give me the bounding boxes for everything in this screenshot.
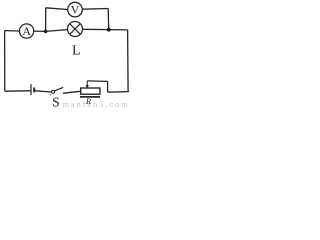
svg-text:manfen5.com: manfen5.com xyxy=(62,99,129,108)
wire rheostat step vertical xyxy=(107,81,109,92)
wire switch right to rheostat xyxy=(63,91,81,93)
wire voltmeter top right xyxy=(83,8,109,11)
lamp L xyxy=(68,22,83,37)
wire right vertical xyxy=(127,30,130,92)
wire node to lamp xyxy=(46,30,68,32)
wire voltmeter branch right vertical xyxy=(107,9,110,30)
wire ammeter left xyxy=(5,30,20,32)
wire battery to switch xyxy=(35,91,52,92)
svg-text:A: A xyxy=(22,24,31,38)
wire rheostat step lower xyxy=(108,91,129,94)
svg-text:R: R xyxy=(85,96,92,106)
scan speck xyxy=(50,94,52,96)
svg-text:S: S xyxy=(52,94,60,108)
svg-text:V: V xyxy=(71,3,80,17)
rheostat slider arrow xyxy=(86,81,89,88)
wire bottom left xyxy=(5,90,31,92)
wire voltmeter branch left vertical xyxy=(45,8,47,32)
switch S xyxy=(52,87,64,93)
node junction dot left xyxy=(44,30,48,34)
ammeter A xyxy=(19,24,33,38)
wire left vertical xyxy=(4,31,6,92)
rheostat track bar xyxy=(80,96,100,98)
voltmeter V xyxy=(68,2,83,17)
node junction dot right xyxy=(107,28,111,32)
battery cell xyxy=(31,84,34,95)
wire lamp right xyxy=(83,28,128,31)
svg-text:L: L xyxy=(72,43,81,58)
rheostat R body xyxy=(81,88,100,94)
wire ammeter to node xyxy=(34,30,46,32)
wire rheostat slider arm xyxy=(87,80,107,83)
wire voltmeter top left xyxy=(46,8,68,10)
